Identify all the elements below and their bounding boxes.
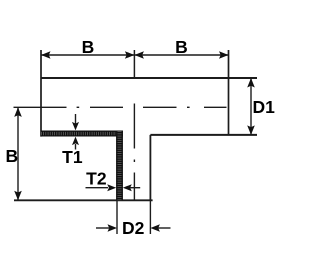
T2 leader arrows	[86, 187, 109, 189]
branch centerline (dash-dot)	[133, 104, 135, 200]
svg-text:D1: D1	[253, 97, 276, 117]
arrow right tip at x=228.5 pointing right	[219, 51, 229, 59]
run centerline (dash-dot)	[14, 106, 227, 108]
arrows meeting at centre x=134.4	[125, 51, 134, 59]
tee body top outline	[41, 77, 257, 79]
hatched branch left wall (T2)	[116, 131, 123, 201]
svg-text:B: B	[175, 37, 188, 57]
svg-text:B: B	[82, 37, 95, 57]
T1 leader arrows	[75, 114, 77, 127]
run bottom edge right of branch / D1 bottom extension	[150, 134, 257, 136]
left vertical dimension B	[17, 107, 19, 200]
D1 dimension line	[250, 78, 252, 135]
svg-text:T2: T2	[86, 169, 107, 189]
svg-text:T1: T1	[62, 147, 83, 167]
tee body right end cap / extension line	[228, 50, 230, 135]
tee body left end cap / extension line	[40, 50, 42, 137]
branch right outer wall	[149, 135, 151, 200]
hatched run bottom wall (T1)	[41, 131, 123, 137]
branch centre extension line	[133, 50, 135, 78]
svg-text:D2: D2	[122, 218, 145, 238]
arrow left tip at x=41 pointing left	[41, 51, 51, 59]
branch bottom face line	[14, 199, 153, 201]
D2 dimension arrows (outside)	[96, 227, 109, 229]
D2 extension lines	[116, 201, 118, 234]
top dimension line B+B	[41, 54, 229, 56]
svg-text:B: B	[5, 146, 18, 166]
